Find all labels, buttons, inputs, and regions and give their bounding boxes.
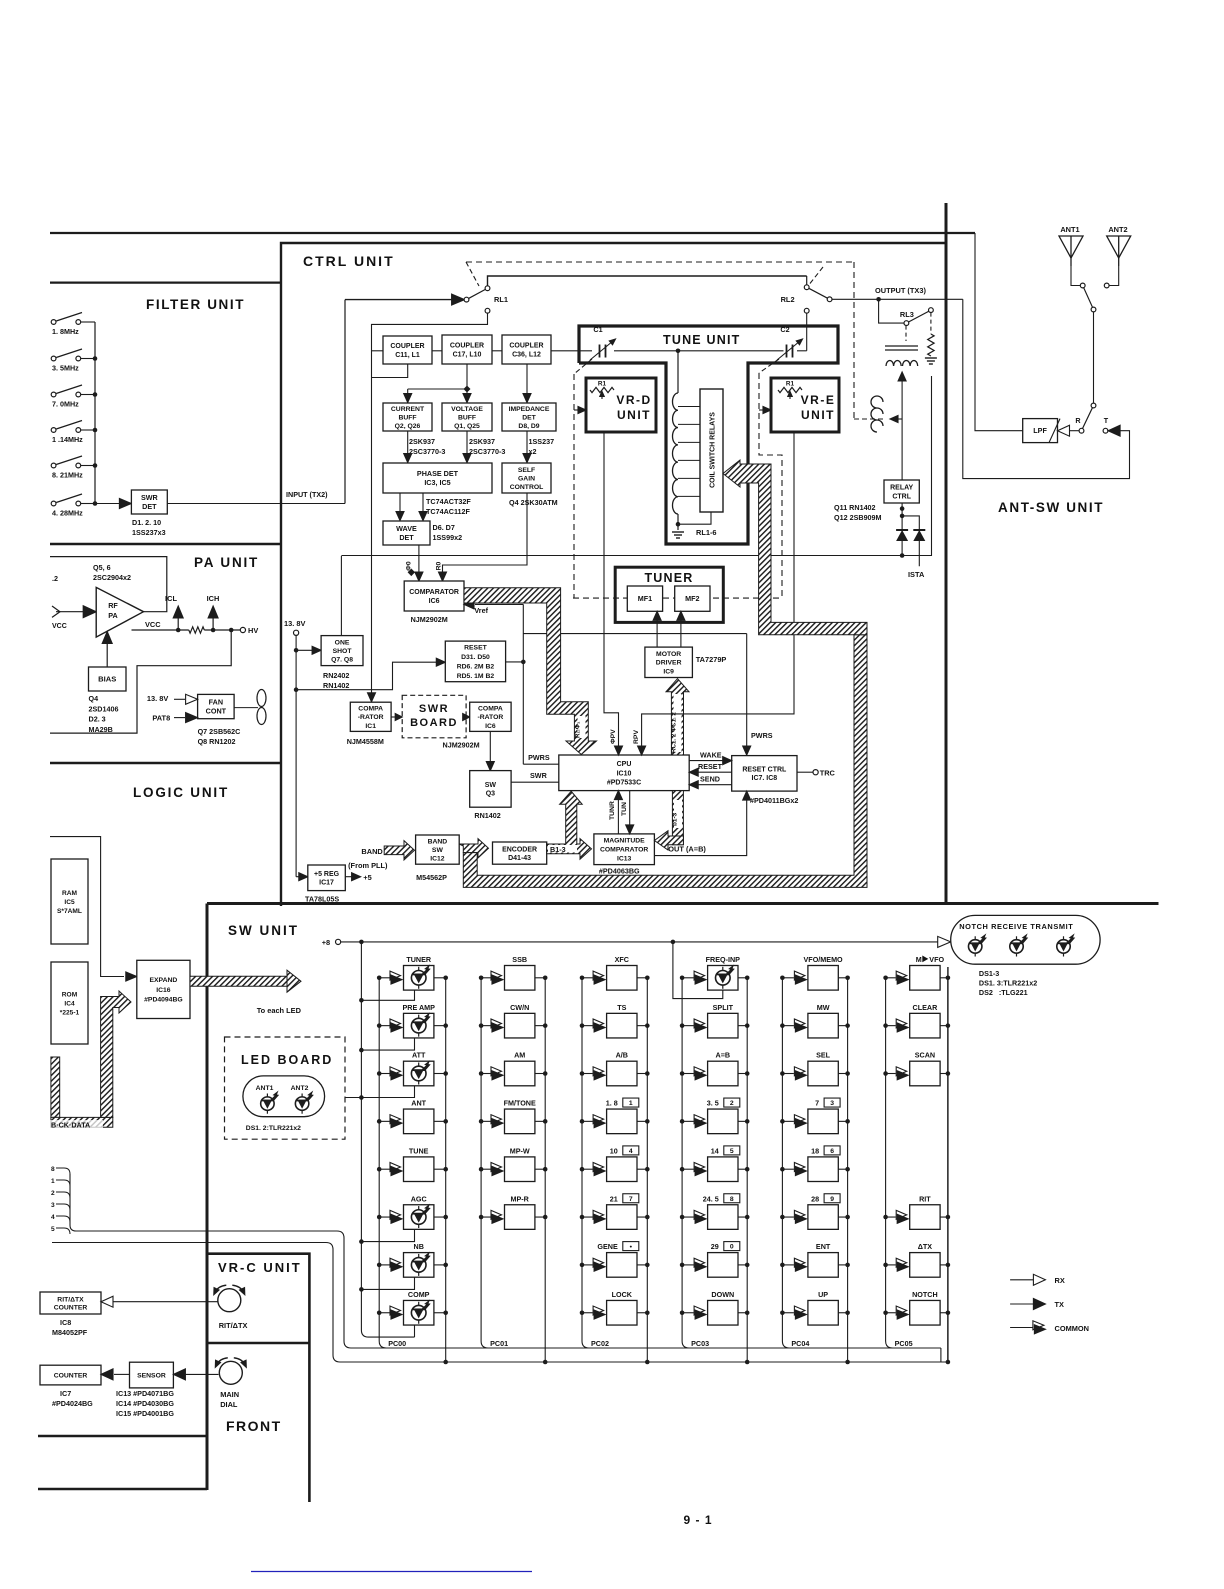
svg-text:COMMON: COMMON	[1055, 1324, 1090, 1333]
svg-text:DOWN: DOWN	[711, 1290, 734, 1299]
diode D relay 2	[902, 516, 919, 566]
svg-text:CW/N: CW/N	[510, 1003, 529, 1012]
svg-text:IC15 #PD4001BG: IC15 #PD4001BG	[116, 1409, 174, 1418]
svg-text:C1: C1	[593, 325, 602, 334]
svg-text:RD5. 1M B2: RD5. 1M B2	[457, 673, 495, 680]
wire filter bus	[94, 322, 96, 504]
vr-e unit box	[771, 378, 839, 432]
key 10 PC02	[582, 1168, 593, 1170]
svg-text:RL3: RL3	[900, 310, 914, 319]
svg-text:VFO/MEMO: VFO/MEMO	[804, 955, 844, 964]
svg-text:MW: MW	[817, 1003, 830, 1012]
svg-text:COMPARATOR: COMPARATOR	[600, 847, 648, 854]
key COMP PC00	[379, 1312, 389, 1314]
svg-text:CTRL UNIT: CTRL UNIT	[303, 253, 395, 269]
svg-text:7: 7	[629, 1196, 633, 1203]
hatch band B1-3 to magnitude comparator and CPU	[547, 791, 592, 859]
svg-text:NJM2902M: NJM2902M	[443, 741, 480, 750]
svg-text:NOTCH: NOTCH	[912, 1290, 938, 1299]
svg-text:PWRS: PWRS	[528, 753, 550, 762]
svg-text:1 .14MHz: 1 .14MHz	[52, 435, 83, 444]
wire rails column PC03	[682, 978, 689, 1348]
svg-text:MOTOR: MOTOR	[656, 651, 681, 658]
svg-text:2SC2904x2: 2SC2904x2	[93, 573, 131, 582]
svg-text:ATT: ATT	[412, 1051, 426, 1060]
svg-text:COUPLER: COUPLER	[450, 343, 484, 350]
svg-text:CURRENT: CURRENT	[391, 406, 425, 413]
wire LED anode bus	[361, 942, 414, 1337]
svg-text:FRONT: FRONT	[226, 1418, 282, 1434]
svg-text:R₁.Φ₁: R₁.Φ₁	[575, 721, 582, 738]
wire impedance det to self gain	[526, 431, 528, 457]
key ATT PC00	[379, 1073, 389, 1075]
key 18 PC04	[782, 1168, 794, 1170]
legend TX	[1010, 1303, 1034, 1305]
wire bus P to SW unit	[70, 1174, 351, 1348]
svg-text:COMP: COMP	[408, 1290, 430, 1299]
svg-text:6: 6	[830, 1148, 834, 1155]
hatch comparator loop to CPU	[464, 588, 597, 755]
regulator +5 REG IC17 TA78L05S	[296, 876, 301, 878]
svg-text:2: 2	[51, 1190, 55, 1197]
svg-text:C36, L12: C36, L12	[512, 351, 541, 358]
transistor BIAS Q4	[89, 667, 127, 691]
svg-text:MAIN: MAIN	[220, 1390, 239, 1399]
svg-text:2SK937: 2SK937	[409, 437, 435, 446]
svg-text:PAT8: PAT8	[152, 714, 170, 723]
buffer CURRENT BUFF Q2 Q26	[383, 403, 432, 431]
switch filter band 1. 8MHz	[51, 320, 56, 325]
svg-text:B1-3: B1-3	[550, 845, 566, 854]
wire SW bottom bus B	[340, 1361, 948, 1363]
svg-text:RN1402: RN1402	[474, 811, 500, 820]
svg-text:IC7: IC7	[60, 1389, 71, 1398]
wire ISTA sense line	[341, 376, 931, 556]
wire PRE AMP led return	[361, 1038, 414, 1050]
svg-text:ΔTX: ΔTX	[918, 1242, 933, 1251]
svg-text:ICH: ICH	[207, 594, 220, 603]
wire ant1 to contact	[1071, 266, 1080, 286]
relay RL3	[904, 321, 909, 326]
svg-text:HV: HV	[248, 626, 258, 635]
svg-text:CPU: CPU	[617, 761, 632, 768]
svg-text:ANT2: ANT2	[291, 1085, 309, 1092]
wire to expand ic16	[50, 837, 124, 977]
node ICH	[212, 618, 214, 630]
svg-text:IC17: IC17	[319, 880, 334, 887]
coupler C17 L10	[442, 335, 492, 364]
key AGC PC00	[379, 1216, 389, 1218]
wire Vref	[475, 603, 523, 605]
svg-text:Q4: Q4	[89, 694, 99, 703]
svg-text:Q7. Q8: Q7. Q8	[331, 657, 353, 664]
wire RESET	[697, 771, 732, 773]
led DS1 notch	[974, 936, 976, 956]
wire RX from top line to LPF	[975, 233, 1023, 431]
svg-text:AM: AM	[514, 1051, 525, 1060]
svg-text:R1: R1	[598, 381, 607, 388]
TUNE UNIT box outline	[579, 326, 838, 544]
svg-text:3. 5: 3. 5	[707, 1099, 719, 1108]
svg-text:2: 2	[730, 1100, 734, 1107]
svg-text:4: 4	[629, 1148, 633, 1155]
svg-text:RESET CTRL: RESET CTRL	[742, 767, 787, 774]
svg-text:RN2402: RN2402	[323, 671, 349, 680]
svg-text:R0: R0	[436, 561, 443, 570]
svg-text:C17, L10: C17, L10	[453, 351, 482, 358]
wire relay ctrl up to transformer	[901, 419, 903, 480]
svg-text:SEL: SEL	[816, 1051, 831, 1060]
svg-text:SELF: SELF	[518, 467, 535, 474]
svg-text:Φ0: Φ0	[406, 561, 413, 571]
svg-text:NJM2902M: NJM2902M	[411, 615, 448, 624]
wire phiPV from VR-D	[604, 432, 619, 749]
svg-text:Q1, Q25: Q1, Q25	[454, 423, 480, 430]
svg-text:RESET: RESET	[698, 762, 723, 771]
svg-text:IC8: IC8	[60, 1318, 71, 1327]
resistor dummy load	[928, 334, 934, 356]
svg-text:9 - 1: 9 - 1	[683, 1513, 712, 1527]
svg-text:14: 14	[711, 1146, 719, 1155]
svg-text:MA29B: MA29B	[89, 725, 113, 734]
wire 13.8V to reset box	[296, 662, 438, 690]
svg-text:CONT: CONT	[206, 707, 227, 716]
svg-text:RPV: RPV	[633, 730, 640, 744]
wire rails column PC04	[782, 978, 789, 1348]
svg-text:TC74ACT32F: TC74ACT32F	[426, 497, 471, 506]
switch antenna selector	[1080, 283, 1085, 288]
key 28 PC04	[782, 1216, 794, 1218]
svg-text:SENSOR: SENSOR	[137, 1373, 166, 1380]
VR-C UNIT box	[207, 1254, 309, 1502]
svg-text:A/B: A/B	[616, 1051, 628, 1060]
svg-text:2SK937: 2SK937	[469, 437, 495, 446]
svg-text:CLEAR: CLEAR	[913, 1003, 939, 1012]
key FM/TONE PC01	[481, 1120, 490, 1122]
svg-text:TUNER: TUNER	[644, 571, 693, 585]
key TUNE PC00	[379, 1168, 389, 1170]
tuner TUNER box	[615, 567, 723, 622]
svg-text:1: 1	[629, 1100, 633, 1107]
wire dashed through tuner	[573, 597, 782, 599]
svg-text:C11, L1: C11, L1	[395, 352, 420, 359]
svg-text:0: 0	[730, 1244, 734, 1251]
svg-text:1. 8MHz: 1. 8MHz	[52, 327, 79, 336]
key 1. 8 PC02	[582, 1120, 593, 1122]
svg-text:#PD4024BG: #PD4024BG	[52, 1399, 93, 1408]
wire ATT led to LED BOARD	[336, 1086, 415, 1098]
svg-text:MP-W: MP-W	[510, 1146, 530, 1155]
svg-text:28: 28	[811, 1194, 819, 1203]
detector WAVE DET D6 D7 1SS99x2	[383, 521, 430, 545]
svg-text:DS1. 2:TLR221x2: DS1. 2:TLR221x2	[246, 1125, 301, 1132]
svg-text:CTRL: CTRL	[892, 493, 911, 500]
svg-text:Q4 2SK30ATM: Q4 2SK30ATM	[509, 498, 558, 507]
svg-text:RAM: RAM	[62, 890, 78, 897]
svg-text:Q11 RN1402: Q11 RN1402	[834, 503, 876, 512]
svg-text:VCC: VCC	[52, 623, 67, 630]
svg-text:7: 7	[815, 1099, 819, 1108]
coupler C36 L12	[502, 335, 551, 364]
svg-text:7. 0MHz: 7. 0MHz	[52, 400, 79, 409]
wire to RL3	[879, 299, 904, 323]
wire RPV from VR-E	[642, 432, 794, 749]
svg-text:LOCK: LOCK	[612, 1290, 633, 1299]
wire FREQ-INP led feed	[673, 942, 723, 999]
svg-text:ENCODER: ENCODER	[502, 846, 537, 853]
svg-text:FAN: FAN	[209, 698, 223, 707]
key M▶VFO PC05	[886, 977, 896, 979]
svg-text:RELAY: RELAY	[890, 485, 913, 492]
svg-text:9: 9	[830, 1196, 834, 1203]
key LOCK PC02	[582, 1312, 593, 1314]
svg-text:M54562P: M54562P	[416, 873, 447, 882]
svg-text:IC4: IC4	[64, 1000, 75, 1007]
svg-text:18: 18	[811, 1146, 819, 1155]
svg-text:D1. 2. 10: D1. 2. 10	[132, 518, 161, 527]
svg-text:RL1-6: RL1-6	[696, 528, 717, 537]
svg-text:Vref: Vref	[474, 606, 488, 615]
wire phase det to wave det	[399, 493, 401, 515]
node 13.8V	[294, 630, 299, 635]
svg-text:OUTPUT (TX3): OUTPUT (TX3)	[875, 286, 926, 295]
magnitude comparator IC13	[594, 834, 655, 865]
key MP-W PC01	[481, 1168, 490, 1170]
switch filter band 4. 28MHz	[51, 501, 56, 506]
svg-text:8: 8	[51, 1166, 55, 1173]
wire IC1 to SWR board	[391, 716, 396, 718]
svg-text:VR-E: VR-E	[801, 393, 836, 407]
svg-text:#PD7533C: #PD7533C	[607, 780, 641, 787]
svg-text:Q5, 6: Q5, 6	[93, 563, 111, 572]
svg-text:FREQ-INP: FREQ-INP	[706, 955, 741, 964]
svg-text:MF2: MF2	[685, 594, 699, 603]
indicator oval NOTCH RECEIVE TRANSMIT	[938, 936, 951, 947]
svg-text:COUNTER: COUNTER	[54, 1305, 88, 1312]
svg-text:.2: .2	[52, 574, 58, 583]
led board dashed box	[225, 1037, 346, 1139]
svg-text:IC16: IC16	[156, 987, 171, 994]
svg-text:BUFF: BUFF	[458, 414, 476, 421]
svg-text:DIAL: DIAL	[220, 1400, 238, 1409]
detector PHASE DET IC3 IC5	[383, 463, 492, 493]
wire INPUT (TX2)	[167, 503, 345, 505]
svg-text:ANT2: ANT2	[1108, 225, 1127, 234]
key NB PC00	[379, 1264, 389, 1266]
svg-text:RF: RF	[108, 601, 118, 610]
cpu CPU IC10 #PD7533C	[559, 755, 689, 791]
switch filter band 7. 0MHz	[51, 392, 56, 397]
svg-text:+5: +5	[363, 873, 371, 882]
svg-text:DRIVER: DRIVER	[656, 660, 682, 667]
reset box D31 D50	[445, 641, 505, 682]
wire PA UNIT top line	[50, 543, 281, 545]
svg-text:T: T	[1104, 416, 1109, 425]
key GENE PC02	[582, 1264, 593, 1266]
svg-text:3: 3	[51, 1202, 55, 1209]
wire COMP led return	[414, 1325, 416, 1337]
wire C11 output	[372, 364, 408, 378]
wire coil taps	[678, 406, 700, 408]
vr-d unit box	[586, 378, 656, 432]
wire LPF to R contact open arrow	[1070, 430, 1079, 432]
svg-text:D6. D7: D6. D7	[433, 523, 455, 532]
counter COUNTER IC7 #PD4024BG	[40, 1365, 101, 1385]
svg-text:3. 5MHz: 3. 5MHz	[52, 364, 79, 373]
svg-text:1: 1	[51, 1178, 55, 1185]
svg-text:LOGIC UNIT: LOGIC UNIT	[133, 785, 229, 800]
wire TUN	[629, 791, 631, 829]
wire TUNR	[617, 796, 619, 834]
wire PWRS to reset ctrl	[746, 634, 748, 749]
node T contact	[1103, 428, 1108, 433]
amplifier RF PA Q5,6 2SC2904x2	[96, 587, 143, 637]
svg-text:BAND: BAND	[428, 838, 448, 845]
svg-text:VOLTAGE: VOLTAGE	[451, 406, 483, 413]
svg-text:UNIT: UNIT	[617, 408, 651, 422]
svg-text:PHASE DET: PHASE DET	[417, 469, 459, 478]
svg-text:M: M	[916, 955, 922, 964]
wire knob to rit counter	[113, 1301, 219, 1303]
svg-text:TX: TX	[1055, 1300, 1065, 1309]
svg-text:To each LED: To each LED	[257, 1006, 302, 1015]
wire rails column PC01	[481, 978, 488, 1348]
switch SW Q3 RN1402	[470, 771, 511, 808]
wire OUT A=B	[654, 797, 746, 856]
svg-text:ROM: ROM	[62, 991, 78, 998]
svg-text:MF1: MF1	[638, 594, 652, 603]
svg-text:BIAS: BIAS	[98, 675, 116, 684]
svg-text:1SS237x3: 1SS237x3	[132, 528, 166, 537]
svg-text:TUNR: TUNR	[609, 801, 616, 820]
key TUNER PC00	[379, 977, 389, 979]
svg-text:C2: C2	[780, 325, 789, 334]
svg-text:NOTCH RECEIVE TRANSMIT: NOTCH RECEIVE TRANSMIT	[959, 922, 1073, 931]
switch filter band 8. 21MHz	[51, 463, 56, 468]
svg-text:DS2 :TLG221: DS2 :TLG221	[979, 988, 1028, 997]
svg-text:SWR: SWR	[141, 493, 159, 502]
wire SW UNIT right rail	[947, 967, 949, 1362]
wire SWR to CPU	[511, 781, 559, 783]
svg-text:5: 5	[51, 1226, 55, 1233]
diode D relay 1	[901, 503, 903, 556]
relay RL1	[344, 300, 346, 504]
svg-text:+8: +8	[322, 938, 330, 947]
svg-text:D2. 3: D2. 3	[89, 715, 106, 724]
svg-text:SCAN: SCAN	[915, 1051, 935, 1060]
svg-text:D41-43: D41-43	[508, 855, 531, 862]
key RIT PC05	[886, 1216, 896, 1218]
svg-text:PA: PA	[108, 611, 117, 620]
svg-text:1SS99x2: 1SS99x2	[433, 533, 463, 542]
svg-text:24. 5: 24. 5	[703, 1194, 719, 1203]
wire SW UNIT top line	[207, 902, 1159, 905]
wire rails column PC00	[379, 978, 386, 1348]
wire one shot trigger from ISTA line	[340, 556, 342, 636]
svg-text:LPF: LPF	[1033, 426, 1047, 435]
svg-text:PC04: PC04	[791, 1339, 809, 1348]
relay coil	[871, 396, 883, 432]
wire FILTER UNIT top line	[50, 282, 281, 284]
svg-text:ANT1: ANT1	[1060, 225, 1079, 234]
svg-text:3: 3	[830, 1100, 834, 1107]
key TS PC02	[582, 1025, 593, 1027]
wire IC6 to SW Q3	[489, 731, 491, 765]
svg-text:UP: UP	[818, 1290, 828, 1299]
node ICL	[177, 618, 179, 630]
wire C36 down	[526, 364, 528, 397]
reset ctrl IC7 IC8 #PD4011BGx2	[732, 756, 797, 792]
svg-text:TRC: TRC	[820, 769, 836, 778]
svg-text:S*7AML: S*7AML	[57, 908, 82, 915]
svg-text:IC10: IC10	[617, 770, 632, 777]
wire 13.8V to one shot	[296, 649, 314, 651]
svg-text:CONTROL: CONTROL	[510, 484, 544, 491]
svg-text:PWRS: PWRS	[751, 731, 773, 740]
detector IMPEDANCE DET D8 D9	[502, 403, 556, 431]
wire AGC led return	[361, 1229, 414, 1241]
wire RL1 to RL2 top link	[488, 276, 807, 286]
key ENT PC04	[782, 1264, 794, 1266]
svg-text:VR-C UNIT: VR-C UNIT	[218, 1260, 302, 1275]
dashed gang C2 to VR-E	[759, 359, 779, 373]
svg-text:RL1: RL1	[494, 295, 508, 304]
coupler C11 L1	[383, 336, 432, 364]
svg-text:PA UNIT: PA UNIT	[194, 555, 259, 570]
svg-text:BOARD: BOARD	[410, 717, 458, 729]
svg-text:M84052PF: M84052PF	[52, 1328, 88, 1337]
hatch bus bottom loop	[463, 635, 867, 888]
svg-text:ICL: ICL	[165, 594, 177, 603]
wire ant2 to contact	[1109, 266, 1118, 286]
svg-text:13. 8V: 13. 8V	[284, 619, 305, 628]
svg-text:IC14 #PD4030BG: IC14 #PD4030BG	[116, 1399, 174, 1408]
motor driver IC9 TA7279P	[645, 647, 693, 677]
tuner MF1	[627, 586, 662, 611]
svg-text:ONE: ONE	[335, 639, 350, 646]
svg-text:PC03: PC03	[691, 1339, 709, 1348]
svg-text:A=B: A=B	[716, 1051, 731, 1060]
svg-text:RIT: RIT	[919, 1194, 931, 1203]
svg-text:2SD1406: 2SD1406	[89, 704, 119, 713]
key 21 PC02	[582, 1216, 593, 1218]
key 24. 5 PC03	[682, 1216, 694, 1218]
key 7 PC04	[782, 1120, 794, 1122]
wire OUTPUT TX3	[832, 298, 963, 300]
key ΔTX PC05	[886, 1264, 896, 1266]
coil tuning inductor	[677, 351, 679, 393]
knob MAIN DIAL	[219, 1361, 242, 1384]
svg-text:NJM4558M: NJM4558M	[347, 737, 384, 746]
svg-text:ANT1: ANT1	[256, 1085, 274, 1092]
svg-text:IC13 #PD4071BG: IC13 #PD4071BG	[116, 1389, 174, 1398]
knob RIT/dTX	[218, 1289, 241, 1312]
dashed RL3 to resistor	[930, 313, 932, 334]
wire SWR board to IC6	[464, 716, 466, 718]
key SEL PC04	[782, 1073, 794, 1075]
key NOTCH PC05	[886, 1312, 896, 1314]
key 3. 5 PC03	[682, 1120, 694, 1122]
svg-text:ANT-SW UNIT: ANT-SW UNIT	[998, 500, 1104, 515]
svg-text:R1: R1	[786, 381, 795, 388]
svg-text:DS1. 3:TLR221x2: DS1. 3:TLR221x2	[979, 979, 1037, 988]
memory RAM IC5	[51, 859, 88, 944]
hatch band BAND SW to ENCODER	[459, 839, 488, 858]
key A/B PC02	[582, 1073, 593, 1075]
svg-text:13. 8V: 13. 8V	[147, 694, 168, 703]
svg-text:21: 21	[610, 1194, 618, 1203]
wire PA UNIT bottom line	[50, 762, 281, 764]
